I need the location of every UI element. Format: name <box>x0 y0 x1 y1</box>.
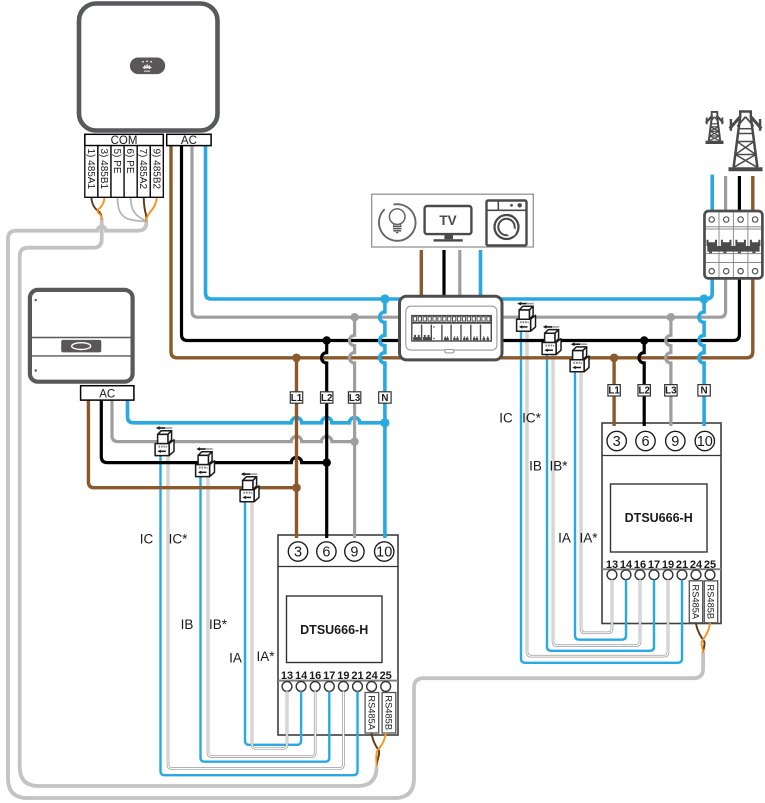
svg-text:TV: TV <box>439 213 456 228</box>
svg-text:L1: L1 <box>291 393 303 404</box>
M2 label DTSU666-H <box>611 484 708 552</box>
svg-text:RS485B: RS485B <box>384 695 394 730</box>
M2 bottom terminal circles <box>607 570 715 580</box>
wire: grid L2 black bus (inverter1 AC to grid breaker) <box>182 146 740 341</box>
svg-text:5) PE: 5) PE <box>111 149 122 174</box>
COM terminal 5) PE <box>111 146 124 198</box>
wire: CT secondary IC* blue (M1, clamp C to terminal 21) <box>161 442 358 776</box>
wire: inverter2 AC L2 black bus with hop <box>101 400 326 463</box>
wire: CT secondary IC gray (M2, clamp C to terminal 19) <box>527 317 668 656</box>
svg-text:IC: IC <box>140 532 154 547</box>
wire: CT secondary IB* blue (M1, clamp B to terminal 17) <box>201 463 330 762</box>
svg-text:N: N <box>381 393 388 404</box>
svg-text:3: 3 <box>294 545 302 561</box>
node label N (M2) <box>698 385 710 397</box>
CT clamp A (M1, on brown L1) <box>240 472 259 502</box>
wire: M1 L2 drop black with hop <box>322 341 327 539</box>
inverter U1 (top, Huawei) <box>79 4 218 133</box>
wire: CT secondary IA gray (M2, clamp A to terminal 13) <box>581 358 612 633</box>
svg-text:9: 9 <box>350 545 358 561</box>
svg-text:RS485A: RS485A <box>367 695 377 730</box>
COM terminal 7) 485A2 <box>137 146 150 198</box>
svg-text:L1: L1 <box>608 386 620 397</box>
node label L2 (M2) <box>638 385 650 397</box>
svg-text:16: 16 <box>309 670 321 682</box>
wire: M2 twisted pair RS485 (brown 24 / orange 25) <box>696 624 710 652</box>
CT clamp B (M1, on black L2) <box>196 447 215 477</box>
svg-text:N: N <box>701 386 708 397</box>
wire: CT secondary IB gray (M1, clamp B to terminal 16) <box>208 463 315 757</box>
svg-text:25: 25 <box>380 670 392 682</box>
svg-text:IC*: IC* <box>522 410 542 425</box>
load icon: lamp <box>379 204 416 241</box>
svg-text:21: 21 <box>676 559 688 571</box>
svg-text:9: 9 <box>671 434 679 450</box>
svg-text:DTSU666-H: DTSU666-H <box>625 511 693 525</box>
svg-text:L3: L3 <box>349 393 361 404</box>
node label L1 (M1) <box>290 392 302 404</box>
svg-text:RS485A: RS485A <box>691 584 701 619</box>
wire: CT secondary IC* blue (M2, clamp C to terminal 21) <box>521 317 682 663</box>
wire: loads L3 gray to distribution board <box>458 250 461 298</box>
svg-text:RS485B: RS485B <box>706 584 716 619</box>
svg-text:6: 6 <box>641 434 649 450</box>
svg-text:IA*: IA* <box>579 531 598 546</box>
svg-text:19: 19 <box>662 559 674 571</box>
wire: CT secondary IA gray (M1, clamp A to terminal 13) <box>252 488 287 749</box>
svg-text:AC: AC <box>99 388 115 400</box>
grid tower small <box>706 112 724 142</box>
CT clamp C (M2, on gray L3) <box>517 302 536 332</box>
inverter U2 AC port box <box>81 386 134 401</box>
svg-text:10: 10 <box>697 434 713 450</box>
grid tower large <box>729 112 763 170</box>
wire: inverter2 AC L3 gray bus with hops <box>112 400 355 442</box>
COM terminal 9) 485B2 <box>150 146 163 198</box>
CT clamp C (M1, on gray L3) <box>155 426 174 456</box>
svg-text:IC*: IC* <box>169 532 189 547</box>
COM terminal 6) PE <box>124 146 137 198</box>
wire: COM PE gray (pin 5 to cable B) <box>118 198 147 222</box>
svg-text:13: 13 <box>606 559 618 571</box>
CT clamp A (M2, on brown L1) <box>570 342 589 372</box>
COM terminal 3) 485B1 <box>98 146 111 198</box>
M1 port RS485B <box>382 693 396 734</box>
M1 terminal 10 <box>375 542 394 561</box>
inverter U1 Huawei logo <box>130 58 165 75</box>
wire: CT secondary IA* blue (M2, clamp A to terminal 14) <box>575 358 626 640</box>
inverter U1 AC port box <box>167 134 211 147</box>
wire: M2 L2 drop black with hop <box>639 341 644 427</box>
wire: inverter2 AC L1 brown bus <box>88 400 296 488</box>
node label L3 (M2) <box>665 385 677 397</box>
distribution board <box>400 296 503 360</box>
M2 terminal 9 <box>666 431 685 450</box>
svg-text:19: 19 <box>337 670 349 682</box>
wire: M2 L3 drop gray with hops <box>666 317 671 426</box>
M1 terminal 9 <box>345 542 364 561</box>
COM terminal 1) 485A1 <box>85 146 98 198</box>
COM port box <box>85 134 164 147</box>
M1 label DTSU666-H <box>287 596 383 663</box>
svg-text:7) 485A2: 7) 485A2 <box>137 149 148 190</box>
wire: loads L1 brown to distribution board <box>420 250 423 298</box>
wire: M1 L1 drop brown <box>295 358 298 538</box>
load icon: TV <box>425 206 472 242</box>
inverter U2 logo plate <box>61 340 101 353</box>
wire: loads L2 black to distribution board <box>442 250 445 298</box>
wire: M1 N drop blue with hops <box>380 299 385 538</box>
M1 bottom terminal circles <box>282 682 391 692</box>
svg-text:17: 17 <box>323 670 335 682</box>
svg-text:IB*: IB* <box>549 459 568 474</box>
svg-text:L3: L3 <box>665 386 677 397</box>
svg-text:AC: AC <box>181 135 197 147</box>
node label L3 (M1) <box>348 392 360 404</box>
svg-text:IA: IA <box>229 650 242 665</box>
svg-text:17: 17 <box>648 559 660 571</box>
svg-text:14: 14 <box>620 559 633 571</box>
M1 terminal 6 <box>317 542 336 561</box>
svg-text:L2: L2 <box>321 393 333 404</box>
CT clamp B (M2, on black L2) <box>542 325 561 355</box>
wire: loads N blue to distribution board <box>479 250 483 298</box>
svg-text:IB: IB <box>529 459 542 474</box>
svg-text:24: 24 <box>365 670 378 682</box>
svg-text:1) 485A1: 1) 485A1 <box>85 149 96 190</box>
svg-text:25: 25 <box>704 559 716 571</box>
grid breaker 4-pole <box>705 211 763 278</box>
wire: RS485 cable B sheath (COM 7/9 to meter M2, hops over cable A) <box>8 221 703 799</box>
svg-text:24: 24 <box>690 559 703 571</box>
svg-text:IC: IC <box>499 410 513 425</box>
svg-text:IA*: IA* <box>256 649 275 664</box>
wire: COM PE gray (pin 6 to cable B) <box>131 198 147 221</box>
wire: grid L3 gray bus (inverter1 AC to grid breaker) <box>192 146 726 318</box>
M2 port RS485A <box>689 581 702 623</box>
M2 bottom terminal numbers 13-25 <box>606 559 716 571</box>
svg-text:IB*: IB* <box>209 617 228 632</box>
inverter U2 (left, Huawei) <box>30 290 133 382</box>
svg-text:14: 14 <box>295 670 308 682</box>
wire: M2 L1 drop brown <box>612 358 615 426</box>
household loads box <box>372 194 534 247</box>
svg-text:IA: IA <box>558 531 571 546</box>
wire: CT secondary IB gray (M2, clamp B to terminal 16) <box>553 341 640 646</box>
svg-text:L2: L2 <box>638 386 650 397</box>
M2 terminal 10 <box>695 431 714 450</box>
wire: M2 N drop blue with hops <box>699 299 704 426</box>
svg-text:6) PE: 6) PE <box>124 149 135 174</box>
svg-text:6: 6 <box>322 545 330 561</box>
power meter M1 DTSU666-H (left) <box>278 535 398 735</box>
node label N (M1) <box>379 392 391 404</box>
svg-text:13: 13 <box>281 670 293 682</box>
power meter M2 DTSU666-H (right) <box>602 423 721 624</box>
M2 terminal 3 <box>607 431 626 450</box>
wire: CT secondary IA* blue (M1, clamp A to terminal 14) <box>245 488 301 745</box>
svg-text:10: 10 <box>376 545 392 561</box>
wire: COM twisted pair A (485A1 brown / 485B1 orange) <box>91 198 104 219</box>
svg-text:DTSU666-H: DTSU666-H <box>300 623 368 637</box>
wire: inverter2 AC N blue bus with hops <box>128 400 385 423</box>
wire: M1 L3 drop gray with hops <box>349 317 354 538</box>
distribution board breaker strip <box>412 316 492 341</box>
svg-text:9) 485B2: 9) 485B2 <box>150 149 161 190</box>
M1 terminal 3 <box>288 542 307 561</box>
node: junction dots <box>292 294 709 492</box>
svg-text:3) 485B1: 3) 485B1 <box>98 149 109 190</box>
wire: grid N blue bus (inverter1 AC to grid breaker) <box>206 146 713 299</box>
load icon: washing machine <box>487 201 527 246</box>
node label L1 (M2) <box>608 385 620 397</box>
wire: CT secondary IB* blue (M2, clamp B to terminal 17) <box>547 341 654 651</box>
svg-text:3: 3 <box>613 434 621 450</box>
M1 port RS485A <box>365 693 379 734</box>
svg-text:IB: IB <box>181 617 194 632</box>
wire: CT secondary IC gray (M1, clamp C to terminal 19) <box>168 442 343 769</box>
M1 bottom terminal numbers 13-25 <box>281 670 392 682</box>
M2 terminal 6 <box>636 431 655 450</box>
node label L2 (M1) <box>321 392 333 404</box>
svg-text:16: 16 <box>634 559 646 571</box>
wire: RS485 cable A sheath (COM 1/3 to meter M1) <box>20 218 377 786</box>
M2 port RS485B <box>704 581 717 623</box>
wire: M1 twisted pair RS485 (brown 24 / orange 25) <box>372 734 386 767</box>
wire: COM twisted pair B (485A2 brown / 485B2 orange) <box>144 198 157 221</box>
wire: grid L1 brown bus (inverter1 AC to grid breaker) <box>171 146 753 358</box>
svg-text:21: 21 <box>351 670 363 682</box>
